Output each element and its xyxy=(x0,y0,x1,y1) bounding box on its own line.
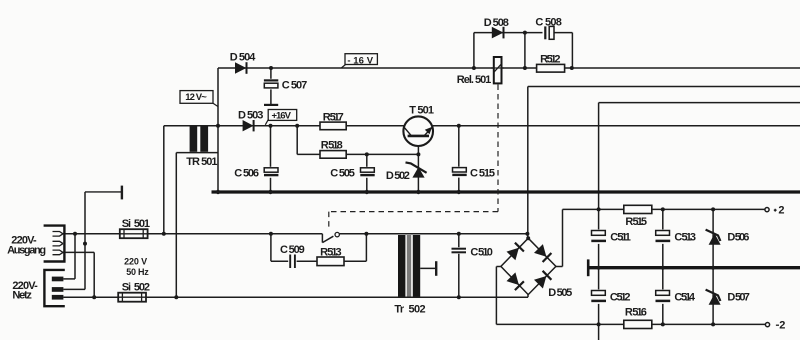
svg-text:Rel. 501: Rel. 501 xyxy=(457,74,492,86)
svg-text:T 501: T 501 xyxy=(409,105,434,117)
svg-text:C 510: C 510 xyxy=(470,247,493,259)
svg-text:C 512: C 512 xyxy=(610,292,631,304)
svg-text:C 506: C 506 xyxy=(234,168,259,180)
svg-text:R 515: R 515 xyxy=(625,216,647,228)
svg-text:12 V~: 12 V~ xyxy=(185,92,207,103)
svg-text:- 16 V: - 16 V xyxy=(347,55,373,66)
svg-text:2: 2 xyxy=(779,320,785,332)
svg-text:D 502: D 502 xyxy=(386,170,410,182)
svg-text:Si 502: Si 502 xyxy=(122,282,150,294)
svg-text:C 514: C 514 xyxy=(674,292,695,304)
svg-text:C 507: C 507 xyxy=(282,80,307,92)
svg-text:D 507: D 507 xyxy=(727,292,750,304)
svg-text:Si 501: Si 501 xyxy=(122,218,150,230)
svg-text:R 517: R 517 xyxy=(323,111,344,123)
svg-text:Netz: Netz xyxy=(12,289,32,301)
svg-text:TR 501: TR 501 xyxy=(186,156,217,168)
svg-text:R 518: R 518 xyxy=(321,140,343,152)
svg-text:Ausgang: Ausgang xyxy=(7,245,46,257)
svg-text:R 512: R 512 xyxy=(540,53,560,65)
svg-text:2: 2 xyxy=(778,204,784,216)
svg-text:C 511: C 511 xyxy=(610,231,631,243)
svg-text:D 506: D 506 xyxy=(727,232,749,244)
svg-text:C 509: C 509 xyxy=(280,244,305,256)
svg-text:220 V: 220 V xyxy=(124,256,147,266)
svg-text:+16V: +16V xyxy=(271,110,291,121)
svg-text:C 505: C 505 xyxy=(330,168,355,180)
svg-text:C 513: C 513 xyxy=(674,231,696,243)
svg-text:D 504: D 504 xyxy=(230,51,256,63)
svg-text:C 515: C 515 xyxy=(470,168,495,180)
svg-text:D 503: D 503 xyxy=(238,109,263,121)
svg-text:R 513: R 513 xyxy=(320,246,342,258)
svg-text:R 516: R 516 xyxy=(625,307,647,319)
svg-text:D 505: D 505 xyxy=(548,287,572,299)
svg-text:D 508: D 508 xyxy=(484,17,509,29)
svg-text:Tr 502: Tr 502 xyxy=(394,304,425,316)
svg-text:C 508: C 508 xyxy=(535,16,562,28)
svg-text:50 Hz: 50 Hz xyxy=(126,267,149,277)
